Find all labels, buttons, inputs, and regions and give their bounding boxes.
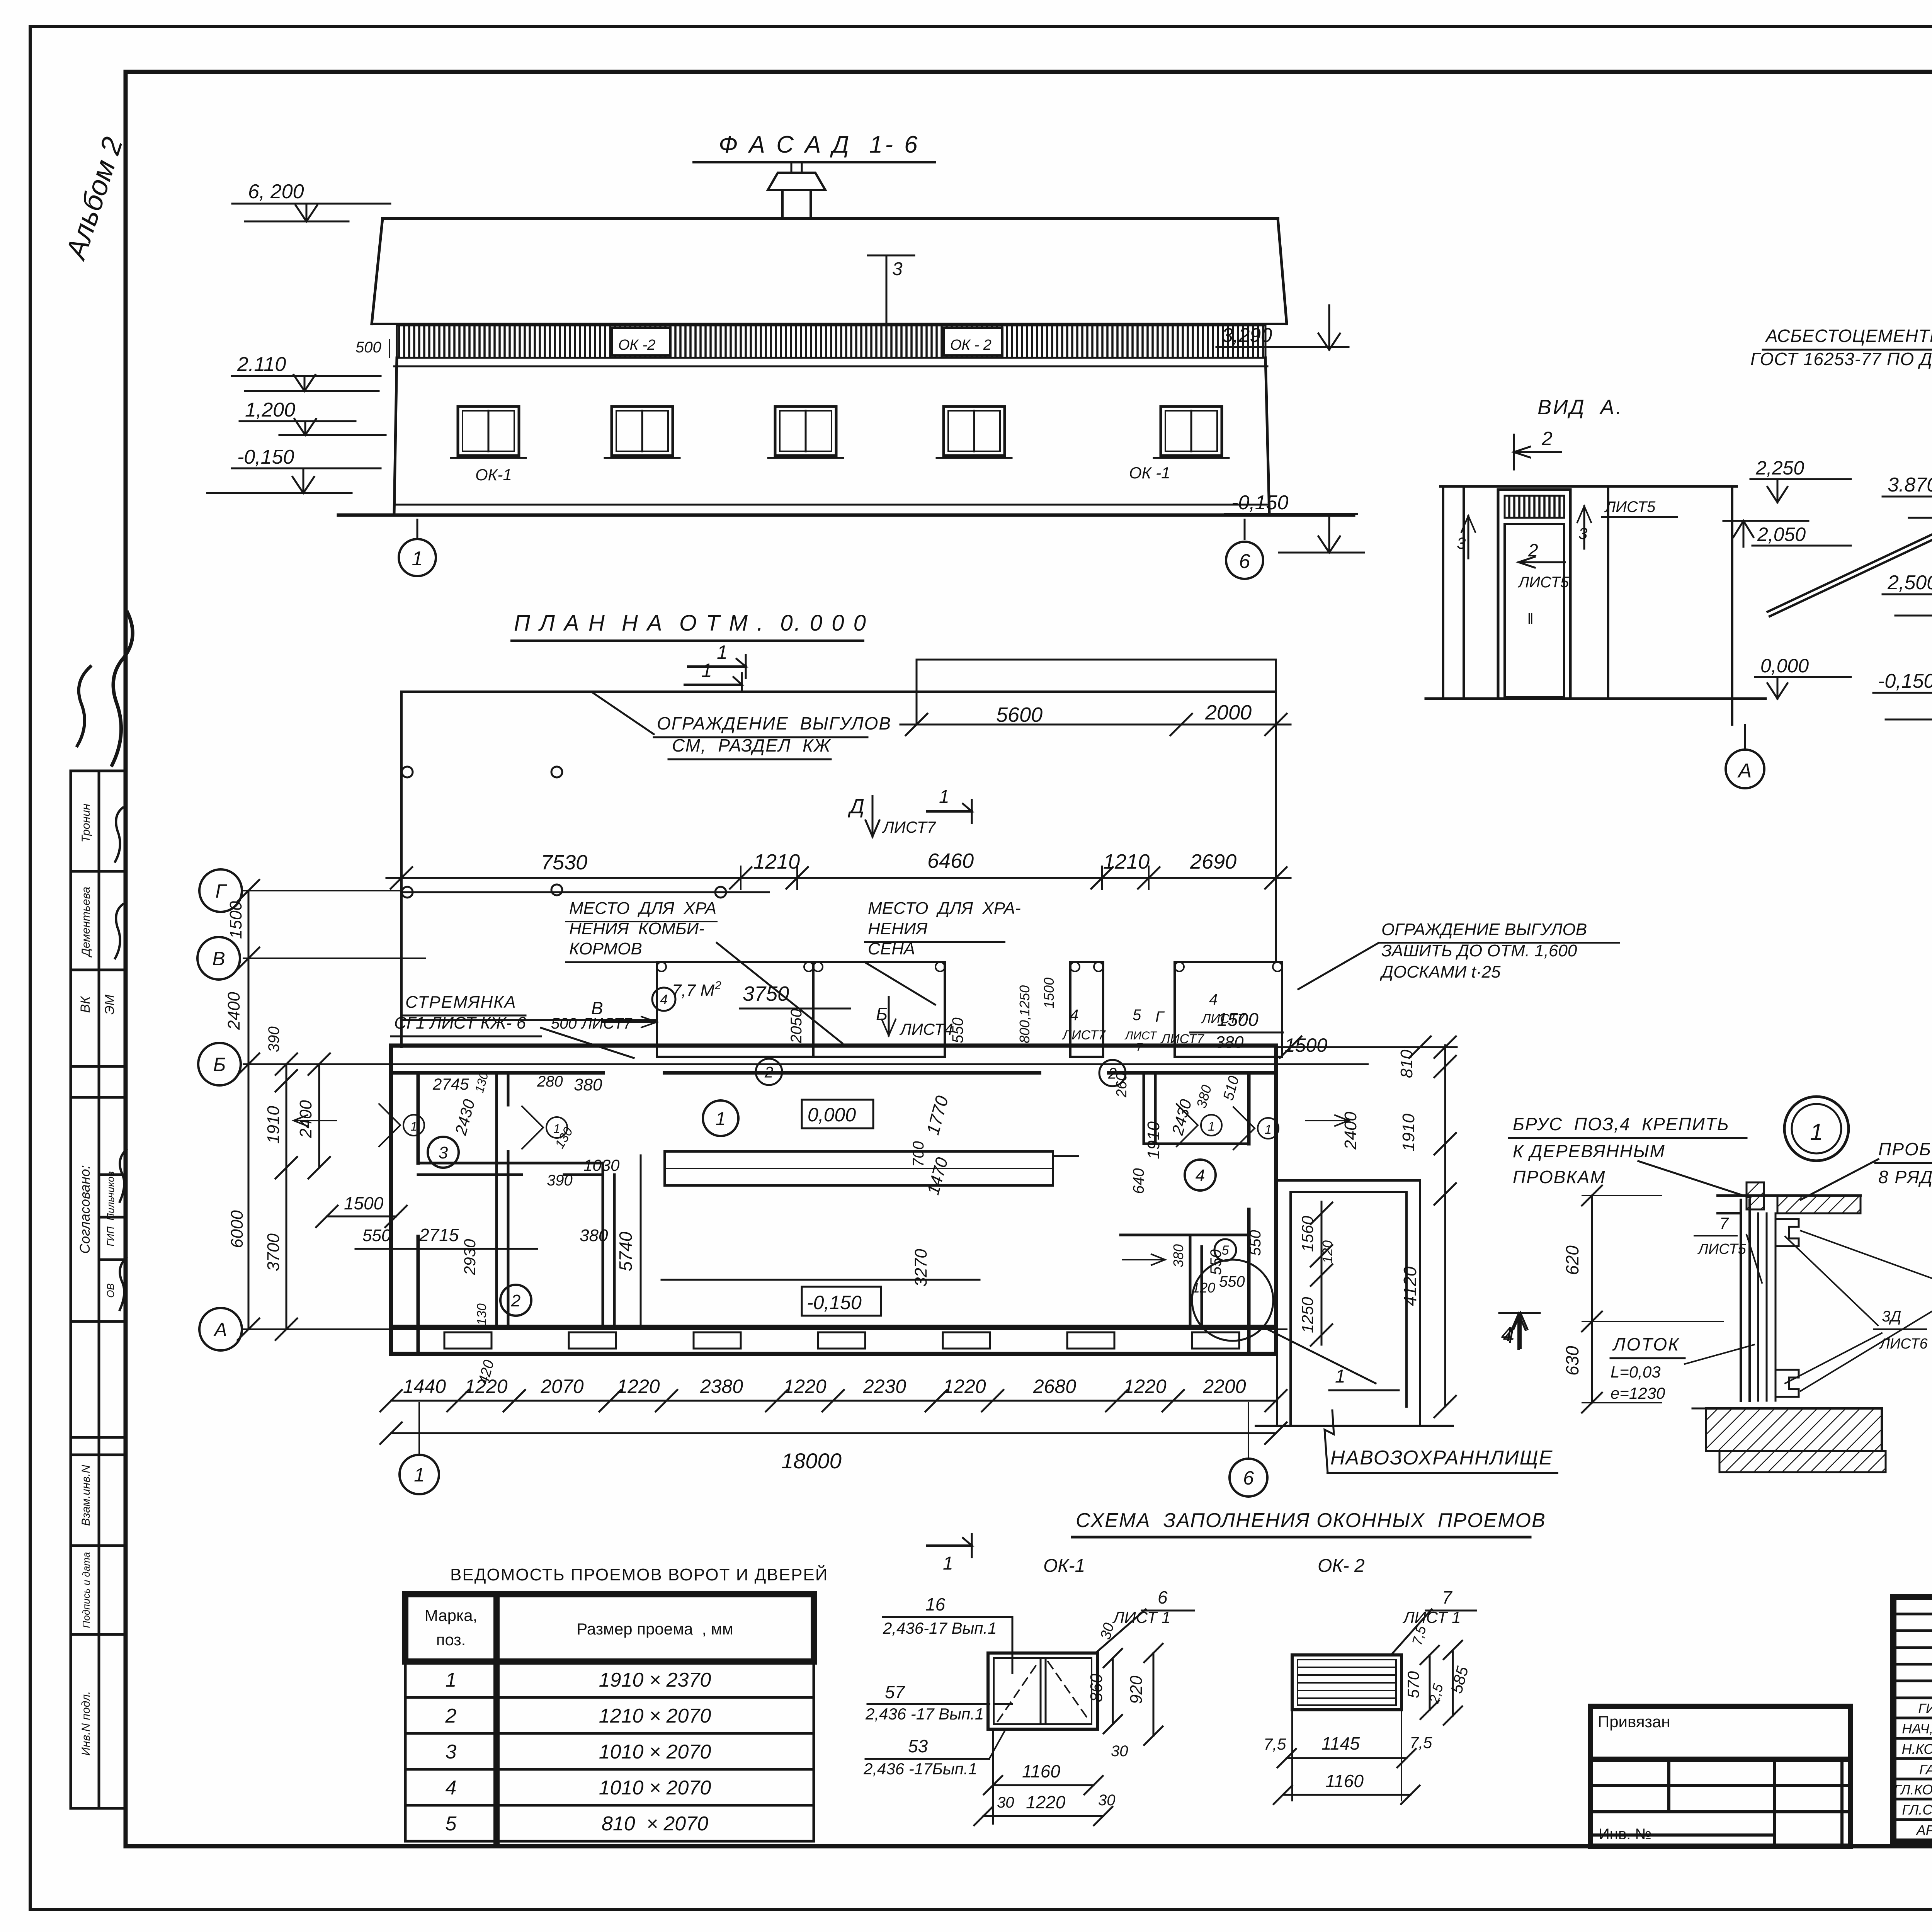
- svg-text:3: 3: [439, 1143, 448, 1162]
- detail callout circle 1: [1784, 1097, 1849, 1161]
- svg-text:1210 × 2070: 1210 × 2070: [599, 1705, 711, 1727]
- svg-text:А: А: [213, 1319, 227, 1340]
- svg-text:1: 1: [701, 660, 712, 681]
- svg-text:2230: 2230: [863, 1376, 906, 1397]
- svg-text:Д: Д: [848, 795, 864, 818]
- axis circle A: [199, 1308, 242, 1350]
- svg-text:390: 390: [265, 1026, 282, 1052]
- svg-text:1: 1: [1265, 1122, 1272, 1136]
- svg-text:СМ, РАЗДЕЛ КЖ: СМ, РАЗДЕЛ КЖ: [672, 735, 831, 755]
- detail top slab hatched: [1777, 1196, 1861, 1213]
- svg-text:ОК - 2: ОК - 2: [950, 337, 992, 353]
- svg-text:2,500: 2,500: [1887, 571, 1932, 594]
- svg-text:7: 7: [1719, 1214, 1729, 1232]
- svg-text:К ДЕРЕВЯННЫМ: К ДЕРЕВЯННЫМ: [1513, 1141, 1665, 1161]
- svg-text:БРУС ПОЗ,4 КРЕПИТЬ: БРУС ПОЗ,4 КРЕПИТЬ: [1513, 1114, 1730, 1134]
- svg-text:ОГРАЖДЕНИЕ ВЫГУЛОВ: ОГРАЖДЕНИЕ ВЫГУЛОВ: [657, 713, 891, 733]
- svg-text:ЗАШИТЬ ДО ОТМ. 1,600: ЗАШИТЬ ДО ОТМ. 1,600: [1381, 941, 1577, 960]
- axis A line: [243, 1328, 1287, 1330]
- svg-text:0,000: 0,000: [1760, 655, 1809, 677]
- svg-text:1250: 1250: [1298, 1297, 1316, 1333]
- overall dim 18000: [391, 1432, 1276, 1434]
- svg-text:е=1230: е=1230: [1611, 1384, 1665, 1402]
- svg-text:Б: Б: [213, 1054, 226, 1075]
- svg-text:ПРОБКИ ЧЕРЕЗ: ПРОБКИ ЧЕРЕЗ: [1878, 1139, 1932, 1159]
- svg-text:ОВ: ОВ: [105, 1283, 116, 1298]
- svg-text:57: 57: [885, 1682, 905, 1702]
- svg-text:380: 380: [1215, 1033, 1244, 1052]
- svg-text:630: 630: [1562, 1346, 1582, 1376]
- plan top dim chain: [386, 877, 1291, 879]
- svg-text:ЛИСТ5: ЛИСТ5: [1604, 498, 1656, 515]
- svg-text:500: 500: [355, 339, 381, 356]
- svg-text:1500: 1500: [1284, 1034, 1327, 1056]
- detail top brus piece: [1747, 1182, 1764, 1209]
- svg-text:1500: 1500: [344, 1193, 384, 1213]
- svg-text:ГОСТ 16253-77 ПО ДЕРЕВЯННОЙ ОБ: ГОСТ 16253-77 ПО ДЕРЕВЯННОЙ ОБРЕШЕТКЕ: [1750, 349, 1932, 369]
- svg-text:ОГРАЖДЕНИЕ ВЫГУЛОВ: ОГРАЖДЕНИЕ ВЫГУЛОВ: [1381, 920, 1587, 939]
- svg-text:6: 6: [1243, 1467, 1254, 1489]
- svg-text:ЛИСТ5: ЛИСТ5: [1517, 574, 1569, 591]
- svg-text:1: 1: [717, 641, 728, 663]
- building bottom wall: [391, 1325, 1276, 1329]
- dim line 5600 2000: [900, 724, 1291, 726]
- svg-text:3750: 3750: [743, 982, 789, 1005]
- svg-text:1030: 1030: [583, 1156, 620, 1174]
- svg-text:810 × 2070: 810 × 2070: [602, 1813, 708, 1835]
- svg-text:Привязан: Привязан: [1598, 1713, 1670, 1731]
- svg-text:НЕНИЯ: НЕНИЯ: [868, 919, 928, 938]
- svg-text:-0,150: -0,150: [807, 1292, 862, 1313]
- window sills: [451, 457, 526, 459]
- svg-text:Подпись и дата: Подпись и дата: [80, 1552, 92, 1628]
- svg-text:Согласовано:: Согласовано:: [77, 1165, 93, 1254]
- axis circle G: [199, 869, 242, 912]
- svg-text:4: 4: [1070, 1007, 1078, 1024]
- svg-text:-0,150: -0,150: [1231, 492, 1289, 514]
- svg-text:2200: 2200: [1202, 1376, 1246, 1397]
- svg-text:1220: 1220: [1026, 1792, 1066, 1812]
- svg-text:1145: 1145: [1321, 1733, 1360, 1753]
- svg-text:7,7 М: 7,7 М: [672, 981, 714, 1000]
- svg-text:ЛИСТ 1: ЛИСТ 1: [1112, 1608, 1170, 1626]
- svg-text:3: 3: [892, 259, 903, 279]
- svg-text:3: 3: [1457, 534, 1466, 552]
- svg-text:1: 1: [943, 1553, 953, 1574]
- svg-text:620: 620: [1562, 1245, 1582, 1275]
- svg-text:860: 860: [1087, 1673, 1106, 1702]
- svg-text:МЕСТО ДЛЯ ХРА-: МЕСТО ДЛЯ ХРА-: [868, 899, 1021, 918]
- svg-text:550: 550: [1219, 1273, 1245, 1290]
- svg-text:СГ1 ЛИСТ КЖ- 6: СГ1 ЛИСТ КЖ- 6: [394, 1014, 526, 1032]
- svg-text:1160: 1160: [1022, 1761, 1060, 1781]
- svg-text:4120: 4120: [1400, 1266, 1420, 1306]
- svg-text:ВЕДОМОСТЬ ПРОЕМОВ ВОРОТ И ДВЕР: ВЕДОМОСТЬ ПРОЕМОВ ВОРОТ И ДВЕРЕЙ: [450, 1565, 828, 1584]
- plan axis circle 1: [418, 1403, 420, 1455]
- svg-text:2400: 2400: [224, 992, 243, 1030]
- svg-text:3: 3: [1578, 524, 1587, 543]
- svg-text:1500: 1500: [226, 901, 245, 939]
- OK-1 bottom dims: [993, 1784, 1094, 1786]
- view A louver: [1505, 496, 1564, 518]
- svg-text:550: 550: [362, 1226, 391, 1245]
- room circles: [703, 1100, 738, 1136]
- svg-text:1910: 1910: [1399, 1114, 1418, 1151]
- svg-text:2: 2: [764, 1064, 773, 1081]
- svg-text:380: 380: [580, 1226, 608, 1245]
- svg-text:ЛИСТ4: ЛИСТ4: [899, 1020, 953, 1038]
- svg-text:2000: 2000: [1205, 701, 1252, 724]
- svg-text:4: 4: [446, 1777, 457, 1799]
- axis G line: [243, 890, 401, 891]
- svg-text:2680: 2680: [1033, 1376, 1076, 1397]
- svg-text:1220: 1220: [464, 1376, 507, 1397]
- svg-text:Н.КОНТР: Н.КОНТР: [1902, 1741, 1932, 1757]
- svg-text:ГИП: ГИП: [105, 1226, 116, 1247]
- svg-text:1: 1: [1335, 1366, 1345, 1387]
- svg-text:7,5: 7,5: [1410, 1733, 1432, 1752]
- svg-text:Инв.N подл.: Инв.N подл.: [80, 1691, 92, 1756]
- vedomost table: [405, 1594, 814, 1841]
- axis 2 circles: [756, 1059, 782, 1085]
- svg-text:НАВОЗОХРАННЛИЩЕ: НАВОЗОХРАННЛИЩЕ: [1330, 1447, 1553, 1469]
- svg-text:1910 × 2370: 1910 × 2370: [599, 1669, 711, 1691]
- manure dims: [1276, 1046, 1457, 1048]
- svg-text:2070: 2070: [540, 1376, 583, 1397]
- facade roof outline: [383, 217, 1278, 220]
- svg-text:2715: 2715: [419, 1225, 459, 1245]
- svg-text:3Д: 3Д: [1882, 1308, 1901, 1325]
- pen rect 1: [657, 962, 945, 1057]
- svg-text:500: 500: [551, 1015, 577, 1032]
- svg-text:1210: 1210: [753, 850, 800, 873]
- OK-1 right dims: [1112, 1658, 1114, 1724]
- svg-text:ЛИСТ7: ЛИСТ7: [580, 1015, 633, 1032]
- svg-text:НАЧ,ОТД: НАЧ,ОТД: [1902, 1721, 1932, 1736]
- fence mid rail: [401, 891, 769, 893]
- svg-text:ЛОТОК: ЛОТОК: [1612, 1334, 1680, 1354]
- facade chimney: [781, 190, 784, 219]
- right rooms walls: [1143, 1073, 1145, 1144]
- svg-text:380: 380: [1170, 1244, 1186, 1267]
- feed trough: [665, 1151, 1053, 1185]
- svg-text:1910: 1910: [1144, 1121, 1163, 1159]
- svg-text:1220: 1220: [1123, 1376, 1166, 1397]
- privyazan box: [1590, 1706, 1850, 1846]
- building right wall: [1274, 1046, 1278, 1354]
- left vertical dim line 1: [248, 891, 250, 1329]
- svg-text:2: 2: [1541, 428, 1553, 449]
- svg-text:2,436 -17 Вып.1: 2,436 -17 Вып.1: [865, 1705, 984, 1723]
- detail dim 620/630: [1591, 1196, 1593, 1403]
- svg-text:2400: 2400: [1341, 1112, 1360, 1150]
- svg-text:1160: 1160: [1325, 1771, 1364, 1791]
- svg-text:1: 1: [412, 548, 423, 570]
- svg-text:ОК -1: ОК -1: [1129, 464, 1170, 482]
- svg-text:ЛИСТ7: ЛИСТ7: [1062, 1028, 1106, 1043]
- OK-1 left leader lines: [994, 1703, 1012, 1705]
- svg-text:550: 550: [949, 1017, 966, 1043]
- zero level box: [802, 1100, 873, 1128]
- svg-text:ЛИСТ6: ЛИСТ6: [1879, 1336, 1928, 1352]
- fence right line: [1275, 692, 1277, 962]
- svg-text:1910: 1910: [264, 1106, 283, 1144]
- facade windows row: [458, 406, 519, 456]
- svg-text:Взам.инв.N: Взам.инв.N: [80, 1465, 92, 1526]
- svg-text:Тронин: Тронин: [80, 804, 92, 842]
- svg-text:130: 130: [474, 1303, 489, 1325]
- svg-text:Г: Г: [1155, 1009, 1165, 1026]
- svg-text:2690: 2690: [1190, 850, 1236, 873]
- svg-text:Марка,: Марка,: [425, 1606, 478, 1624]
- svg-text:СТРЕМЯНКА: СТРЕМЯНКА: [405, 993, 517, 1012]
- svg-text:260: 260: [1114, 1073, 1130, 1098]
- svg-text:1: 1: [414, 1464, 425, 1486]
- svg-text:5600: 5600: [996, 703, 1043, 726]
- left vertical dim line 2: [286, 1064, 287, 1329]
- svg-text:7530: 7530: [541, 851, 587, 874]
- svg-text:ЭМ: ЭМ: [102, 994, 117, 1015]
- svg-text:1,200: 1,200: [245, 399, 295, 421]
- svg-text:7: 7: [1442, 1587, 1452, 1607]
- svg-text:4: 4: [1209, 991, 1218, 1008]
- gutter line: [662, 1279, 980, 1281]
- svg-text:ВИД А.: ВИД А.: [1537, 396, 1623, 419]
- svg-text:1: 1: [410, 1119, 417, 1133]
- OK-1 opening dashes: [998, 1662, 1039, 1721]
- svg-text:2: 2: [445, 1705, 457, 1727]
- svg-text:1220: 1220: [617, 1376, 660, 1397]
- svg-text:Размер проема , мм: Размер проема , мм: [577, 1620, 733, 1638]
- axis circle 1: [399, 539, 436, 576]
- window dim chain: [391, 1400, 1276, 1402]
- svg-text:1500: 1500: [1217, 1010, 1259, 1030]
- svg-text:1: 1: [1810, 1119, 1823, 1145]
- roof callout 3: [886, 255, 888, 358]
- svg-text:30: 30: [1111, 1743, 1128, 1760]
- inner wall left vertical: [495, 1073, 498, 1327]
- svg-text:2: 2: [714, 979, 721, 992]
- svg-text:380: 380: [574, 1075, 602, 1094]
- svg-text:5: 5: [1133, 1007, 1141, 1024]
- facade eaves hatched band: [397, 325, 1265, 358]
- title block outer: [1893, 1597, 1932, 1842]
- axis 4 circle: [652, 988, 675, 1011]
- OK-2 right dims: [1429, 1655, 1431, 1710]
- svg-text:640: 640: [1130, 1168, 1147, 1194]
- svg-text:4: 4: [660, 992, 668, 1007]
- view A door frame: [1498, 490, 1570, 699]
- svg-text:2380: 2380: [700, 1376, 743, 1397]
- svg-text:6000: 6000: [228, 1210, 247, 1248]
- svg-text:1: 1: [1208, 1119, 1215, 1133]
- svg-text:КОРМОВ: КОРМОВ: [569, 939, 642, 958]
- louver window OK-2 left: [612, 328, 670, 355]
- svg-text:3,290: 3,290: [1222, 324, 1272, 347]
- svg-text:А: А: [1737, 760, 1752, 782]
- louver window OK-2 right: [944, 328, 1002, 355]
- detail bottom ground ticks: [1696, 1461, 1893, 1462]
- svg-text:18000: 18000: [781, 1449, 842, 1473]
- svg-text:4: 4: [1196, 1166, 1205, 1185]
- detail vertical boards: [1740, 1200, 1742, 1401]
- fence leader: [591, 692, 654, 734]
- axis circle V: [197, 937, 240, 980]
- svg-text:АСБЕСТОЦЕМЕНТНЫЕ ЛИСТЫ УВ-7.: АСБЕСТОЦЕМЕНТНЫЕ ЛИСТЫ УВ-7.5: [1765, 326, 1932, 346]
- axis V line: [243, 957, 425, 959]
- svg-text:МЕСТО ДЛЯ ХРА: МЕСТО ДЛЯ ХРА: [569, 899, 716, 918]
- svg-text:‖: ‖: [1527, 611, 1534, 628]
- svg-text:3.870: 3.870: [1888, 474, 1932, 496]
- left margin label strips: [71, 771, 126, 1808]
- margin signatures: [77, 612, 133, 1310]
- svg-text:ОК -2: ОК -2: [618, 337, 655, 353]
- svg-text:2050: 2050: [788, 1009, 805, 1044]
- svg-text:1010 × 2070: 1010 × 2070: [599, 1741, 711, 1763]
- svg-text:16: 16: [925, 1594, 946, 1614]
- svg-text:ЛИСТ5: ЛИСТ5: [1697, 1241, 1747, 1257]
- svg-text:ГИП: ГИП: [1918, 1701, 1932, 1716]
- pen rect 3: [1175, 962, 1282, 1057]
- svg-text:5: 5: [446, 1813, 457, 1835]
- svg-text:1220: 1220: [783, 1376, 826, 1397]
- building top wall: [391, 1044, 1276, 1048]
- left vertical dim line 3: [318, 1064, 320, 1168]
- svg-text:ГЛ.СПЕЦ: ГЛ.СПЕЦ: [1902, 1802, 1932, 1818]
- svg-text:В: В: [212, 948, 225, 969]
- section roof truss: [1770, 419, 1932, 616]
- svg-text:1220: 1220: [943, 1376, 986, 1397]
- OK-2 bottom dims: [1287, 1757, 1406, 1759]
- svg-text:ГАП: ГАП: [1919, 1762, 1932, 1777]
- svg-text:570: 570: [1404, 1671, 1422, 1698]
- svg-text:ОК-1: ОК-1: [475, 466, 512, 484]
- svg-text:810: 810: [1397, 1049, 1416, 1078]
- pen rect 2: [1070, 962, 1103, 1057]
- pen posts: [657, 962, 666, 971]
- svg-text:2,250: 2,250: [1755, 457, 1804, 479]
- svg-text:1: 1: [939, 787, 949, 807]
- svg-text:Дементьева: Дементьева: [80, 887, 92, 957]
- axis circle 6: [1226, 542, 1263, 579]
- building left wall: [389, 1046, 393, 1354]
- svg-text:6, 200: 6, 200: [248, 180, 304, 203]
- view A verticals: [1442, 486, 1444, 699]
- svg-text:L=0,03: L=0,03: [1611, 1363, 1661, 1381]
- fence posts: [402, 887, 413, 898]
- svg-text:6460: 6460: [927, 849, 974, 872]
- svg-text:1500: 1500: [1041, 978, 1057, 1009]
- fence top line: [401, 690, 1276, 693]
- view A door leaf: [1505, 524, 1564, 697]
- svg-text:1440: 1440: [403, 1376, 446, 1397]
- detail bottom foundation hatched: [1706, 1408, 1882, 1451]
- svg-text:550: 550: [1247, 1230, 1264, 1256]
- svg-text:30: 30: [997, 1794, 1014, 1811]
- svg-text:2930: 2930: [461, 1239, 479, 1276]
- svg-text:30: 30: [1098, 1792, 1116, 1809]
- svg-text:700: 700: [910, 1141, 927, 1167]
- svg-text:2745: 2745: [432, 1075, 469, 1093]
- svg-text:3270: 3270: [912, 1249, 930, 1287]
- svg-text:-0,150: -0,150: [237, 446, 294, 468]
- view A wall top: [1440, 485, 1737, 488]
- stall partition line: [640, 1155, 642, 1327]
- view A ground: [1426, 697, 1765, 700]
- svg-text:6: 6: [1239, 550, 1250, 573]
- svg-text:390: 390: [547, 1172, 573, 1189]
- OK-2 window: [1292, 1655, 1401, 1710]
- inner wall mid vertical: [602, 1163, 604, 1327]
- view A axis circle A: [1744, 724, 1746, 749]
- svg-text:920: 920: [1127, 1675, 1146, 1704]
- svg-text:ОК- 2: ОК- 2: [1318, 1556, 1365, 1576]
- facade ground line: [338, 514, 1354, 517]
- inner wall horizontal: [418, 1162, 603, 1165]
- svg-text:СХЕМА ЗАПОЛНЕНИЯ ОКОННЫХ ПРО: СХЕМА ЗАПОЛНЕНИЯ ОКОННЫХ ПРОЕМОВ: [1076, 1509, 1546, 1532]
- svg-text:1: 1: [446, 1669, 457, 1691]
- manure storage walls: [1276, 1180, 1278, 1426]
- svg-text:ПРОВКАМ: ПРОВКАМ: [1513, 1167, 1606, 1187]
- svg-text:ВК: ВК: [78, 996, 93, 1013]
- svg-text:1210: 1210: [1103, 850, 1150, 873]
- svg-text:П Л А Н Н А О Т М . 0. 0 0: П Л А Н Н А О Т М . 0. 0 0 0: [514, 611, 867, 636]
- title block grid: [1893, 1597, 1932, 1842]
- svg-text:1010 × 2070: 1010 × 2070: [599, 1777, 711, 1799]
- detail callout circle: [1192, 1260, 1273, 1341]
- svg-text:53: 53: [908, 1736, 928, 1756]
- svg-text:800,1250: 800,1250: [1017, 985, 1032, 1043]
- svg-text:4: 4: [1503, 1325, 1514, 1347]
- svg-text:6: 6: [1158, 1587, 1168, 1607]
- svg-text:5740: 5740: [616, 1231, 636, 1271]
- facade axis ticks: [417, 520, 418, 539]
- svg-text:Г: Г: [215, 880, 227, 902]
- svg-text:ДОСКАМИ t·25: ДОСКАМИ t·25: [1379, 963, 1501, 981]
- svg-text:1: 1: [716, 1109, 726, 1129]
- facade wall: [394, 358, 397, 514]
- svg-text:2: 2: [511, 1291, 520, 1310]
- bottom wall windows: [444, 1332, 492, 1349]
- detail mid clamp: [1776, 1219, 1799, 1246]
- svg-text:2.110: 2.110: [237, 353, 286, 376]
- svg-text:3700: 3700: [264, 1233, 283, 1271]
- svg-text:8 РЯДОВ КЛАДКИ: 8 РЯДОВ КЛАДКИ: [1878, 1167, 1932, 1187]
- svg-text:ЛИСТ: ЛИСТ: [1124, 1029, 1158, 1042]
- svg-text:поз.: поз.: [436, 1631, 466, 1649]
- svg-text:3: 3: [446, 1741, 457, 1763]
- svg-text:-0,150: -0,150: [1878, 670, 1932, 692]
- svg-text:ЛИСТ7: ЛИСТ7: [882, 818, 936, 836]
- minus level box: [802, 1287, 881, 1316]
- small arrows doors: [294, 1115, 336, 1126]
- axis circle B: [198, 1043, 241, 1085]
- svg-text:Пильчиков: Пильчиков: [105, 1171, 116, 1221]
- axis B line: [243, 1063, 1368, 1065]
- OK-1 window: [988, 1653, 1097, 1729]
- svg-text:2,050: 2,050: [1757, 524, 1806, 545]
- svg-text:Ф А С А Д 1- 6: Ф А С А Д 1- 6: [719, 131, 920, 158]
- svg-text:2,436 -17Бып.1: 2,436 -17Бып.1: [863, 1760, 977, 1778]
- svg-text:7,5: 7,5: [1264, 1735, 1286, 1753]
- plan axis circle 6: [1248, 1403, 1249, 1459]
- fence left line: [400, 692, 403, 1047]
- svg-text:АРХ.: АРХ.: [1916, 1822, 1932, 1838]
- svg-text:0,000: 0,000: [808, 1104, 856, 1126]
- fence lower rail: [401, 1019, 657, 1021]
- svg-text:2,436-17 Вып.1: 2,436-17 Вып.1: [883, 1619, 997, 1637]
- svg-text:ГЛ.КОНСТР: ГЛ.КОНСТР: [1894, 1782, 1932, 1798]
